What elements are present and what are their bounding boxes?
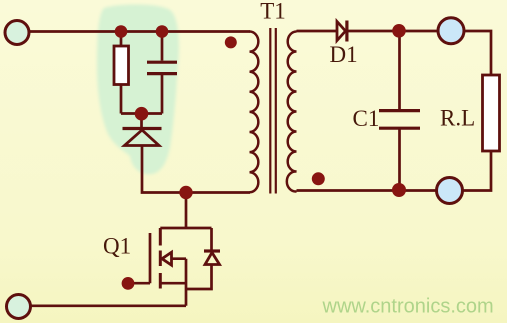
svg-text:D1: D1	[330, 42, 358, 67]
svg-text:C1: C1	[353, 106, 380, 131]
svg-text:www.cntronics.com: www.cntronics.com	[322, 295, 494, 317]
svg-text:Q1: Q1	[103, 234, 131, 259]
svg-text:T1: T1	[260, 0, 286, 24]
svg-text:R.L: R.L	[440, 106, 475, 131]
